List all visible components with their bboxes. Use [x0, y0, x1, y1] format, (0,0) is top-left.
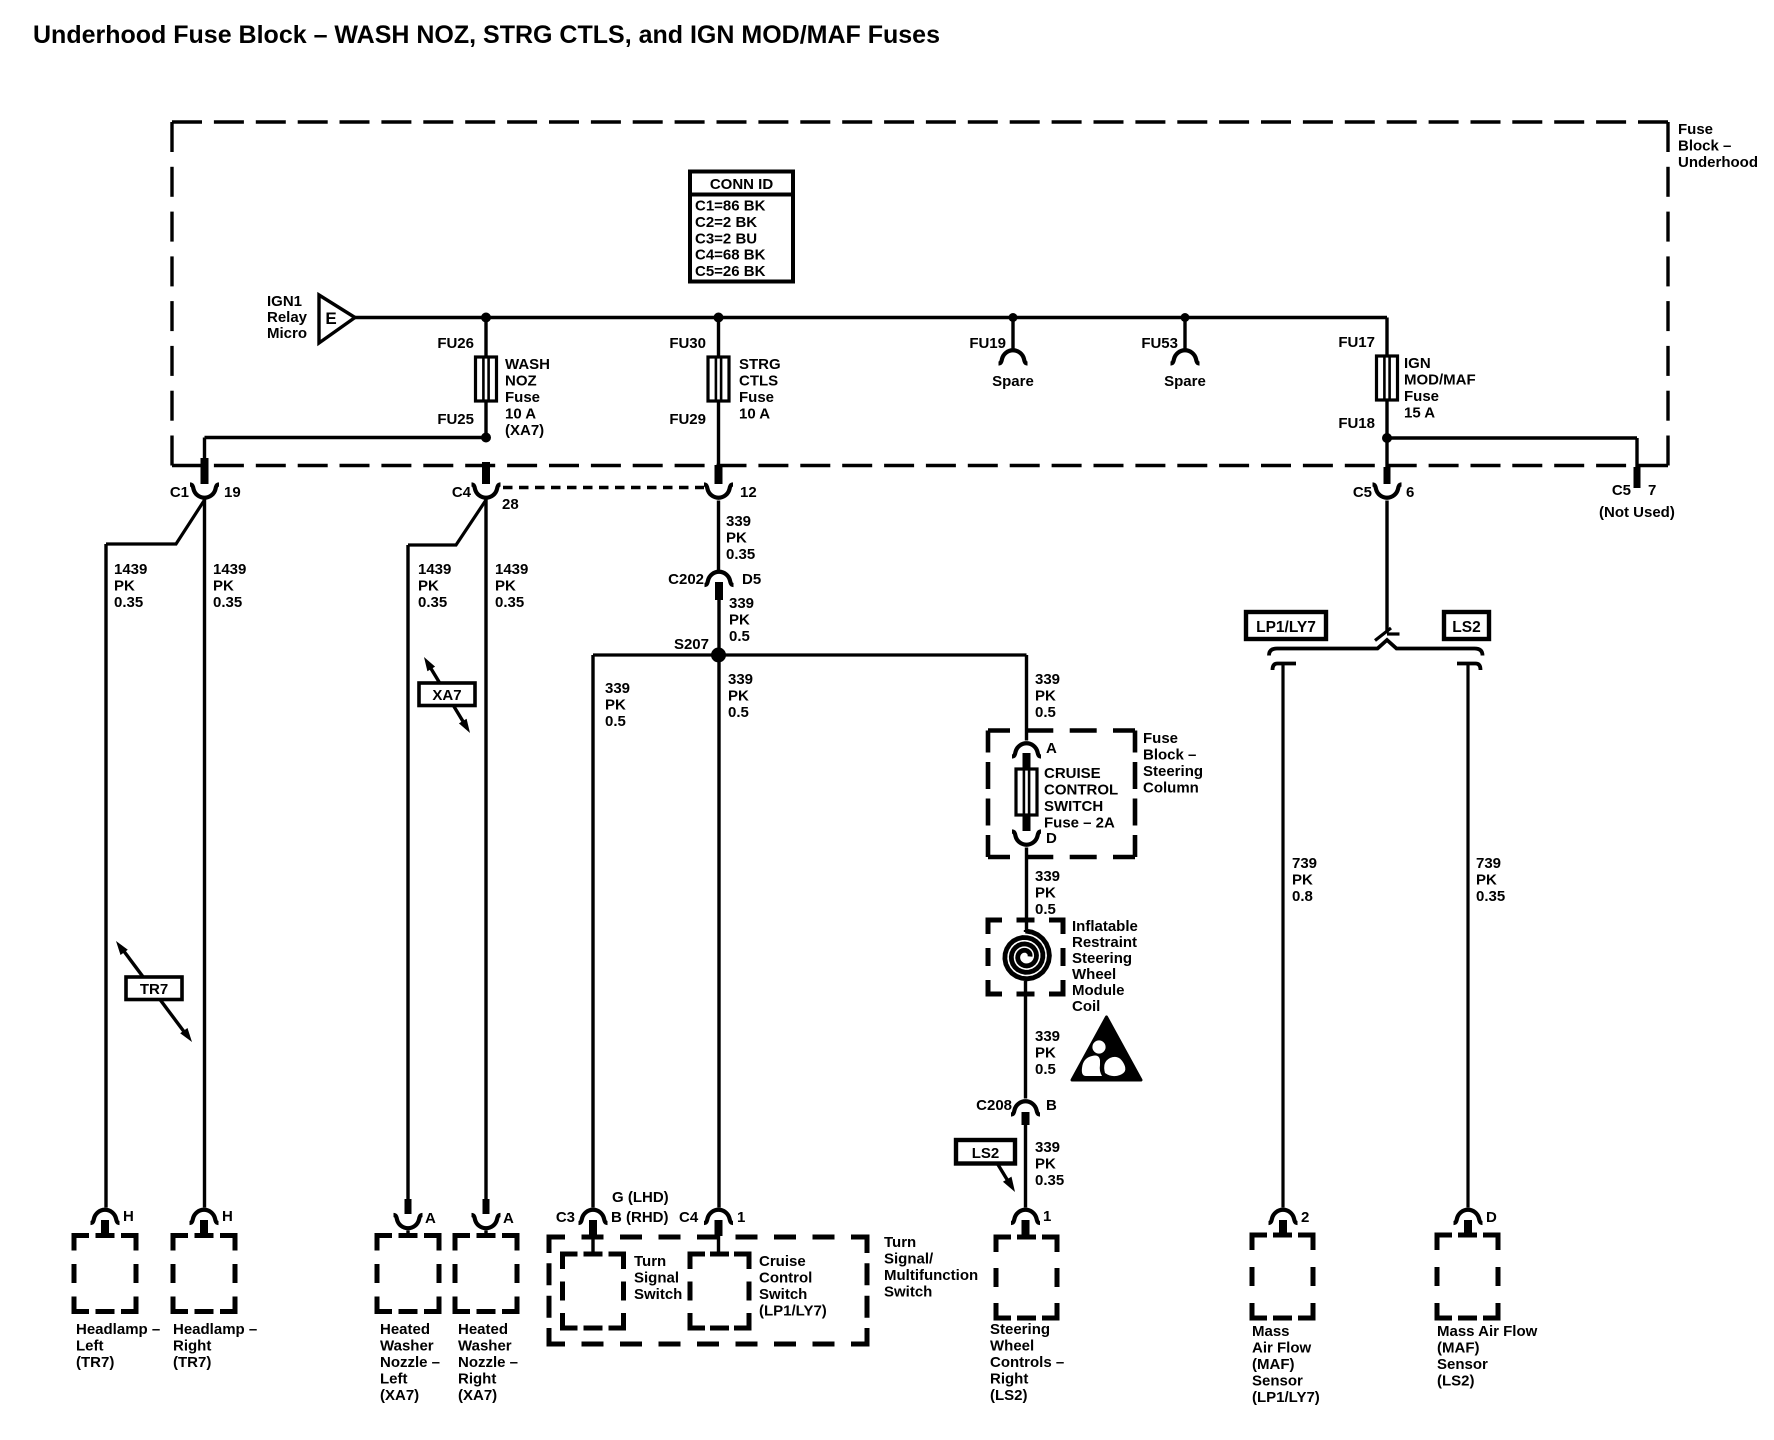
svg-text:(XA7): (XA7) — [380, 1387, 419, 1404]
svg-text:Cruise: Cruise — [759, 1253, 806, 1270]
svg-text:Washer: Washer — [380, 1338, 434, 1355]
svg-text:C2=2 BK: C2=2 BK — [695, 214, 757, 231]
svg-text:PK: PK — [605, 697, 626, 714]
svg-text:FU18: FU18 — [1338, 415, 1375, 432]
svg-text:Nozzle –: Nozzle – — [458, 1354, 518, 1371]
svg-text:1: 1 — [737, 1209, 745, 1226]
svg-text:Heated: Heated — [380, 1321, 430, 1338]
svg-text:339: 339 — [1035, 1139, 1060, 1156]
svg-text:XA7: XA7 — [432, 687, 461, 704]
svg-text:A: A — [503, 1210, 514, 1227]
svg-text:(LS2): (LS2) — [990, 1387, 1028, 1404]
svg-text:PK: PK — [418, 578, 439, 595]
svg-text:Wheel: Wheel — [990, 1338, 1034, 1355]
svg-text:H: H — [222, 1208, 233, 1225]
svg-text:TR7: TR7 — [140, 981, 168, 998]
svg-text:(LP1/LY7): (LP1/LY7) — [759, 1303, 827, 1320]
svg-text:Underhood Fuse Block – WASH NO: Underhood Fuse Block – WASH NOZ, STRG CT… — [33, 21, 940, 49]
svg-text:Air Flow: Air Flow — [1252, 1340, 1311, 1357]
svg-text:Mass Air Flow: Mass Air Flow — [1437, 1323, 1538, 1340]
svg-text:C5=26 BK: C5=26 BK — [695, 263, 766, 280]
svg-text:739: 739 — [1292, 855, 1317, 872]
svg-text:(XA7): (XA7) — [505, 422, 544, 439]
svg-text:Right: Right — [458, 1371, 496, 1388]
svg-text:Sensor: Sensor — [1252, 1373, 1303, 1390]
svg-text:Steering: Steering — [990, 1321, 1050, 1338]
svg-text:Underhood: Underhood — [1678, 154, 1758, 171]
svg-text:(TR7): (TR7) — [76, 1354, 114, 1371]
svg-text:0.5: 0.5 — [1035, 901, 1056, 918]
svg-text:339: 339 — [605, 680, 630, 697]
svg-text:Switch: Switch — [884, 1284, 932, 1301]
svg-text:A: A — [425, 1210, 436, 1227]
svg-text:Spare: Spare — [1164, 373, 1206, 390]
svg-text:C1: C1 — [170, 484, 189, 501]
svg-text:Multifunction: Multifunction — [884, 1267, 978, 1284]
svg-text:6: 6 — [1406, 484, 1414, 501]
svg-text:1439: 1439 — [495, 561, 528, 578]
svg-text:Module: Module — [1072, 982, 1125, 999]
svg-text:(MAF): (MAF) — [1437, 1340, 1479, 1357]
svg-text:Fuse: Fuse — [739, 389, 774, 406]
svg-text:Fuse: Fuse — [1404, 388, 1439, 405]
svg-text:FU17: FU17 — [1338, 334, 1375, 351]
svg-text:Left: Left — [76, 1338, 104, 1355]
svg-text:Column: Column — [1143, 780, 1199, 797]
svg-text:H: H — [123, 1208, 134, 1225]
svg-text:C1=86 BK: C1=86 BK — [695, 198, 766, 215]
svg-text:19: 19 — [224, 484, 241, 501]
svg-text:0.5: 0.5 — [1035, 704, 1056, 721]
svg-text:1: 1 — [1043, 1208, 1051, 1225]
svg-text:Inflatable: Inflatable — [1072, 918, 1138, 935]
svg-text:Mass: Mass — [1252, 1323, 1290, 1340]
svg-text:LS2: LS2 — [1452, 619, 1480, 636]
svg-text:Turn: Turn — [634, 1253, 666, 1270]
svg-text:(LS2): (LS2) — [1437, 1373, 1475, 1390]
svg-text:SWITCH: SWITCH — [1044, 798, 1103, 815]
svg-text:Headlamp –: Headlamp – — [76, 1321, 160, 1338]
svg-text:Right: Right — [173, 1338, 211, 1355]
svg-text:0.5: 0.5 — [729, 628, 750, 645]
svg-text:(MAF): (MAF) — [1252, 1356, 1294, 1373]
svg-text:0.5: 0.5 — [728, 704, 749, 721]
svg-text:C3=2 BU: C3=2 BU — [695, 230, 757, 247]
svg-text:339: 339 — [1035, 1028, 1060, 1045]
svg-text:1439: 1439 — [213, 561, 246, 578]
svg-text:CONTROL: CONTROL — [1044, 782, 1118, 799]
svg-text:739: 739 — [1476, 855, 1501, 872]
svg-text:A: A — [1046, 740, 1057, 757]
svg-text:Right: Right — [990, 1371, 1028, 1388]
svg-text:10 A: 10 A — [505, 406, 536, 423]
svg-text:D5: D5 — [742, 571, 761, 588]
svg-text:PK: PK — [1035, 1045, 1056, 1062]
svg-text:(Not Used): (Not Used) — [1599, 504, 1675, 521]
svg-text:PK: PK — [213, 578, 234, 595]
svg-text:28: 28 — [502, 496, 519, 513]
svg-text:Fuse: Fuse — [1678, 121, 1713, 138]
svg-text:CTLS: CTLS — [739, 373, 778, 390]
svg-text:PK: PK — [1035, 1156, 1056, 1173]
svg-text:FU26: FU26 — [437, 335, 474, 352]
svg-text:PK: PK — [726, 530, 747, 547]
svg-text:Headlamp –: Headlamp – — [173, 1321, 257, 1338]
svg-text:0.5: 0.5 — [1035, 1061, 1056, 1078]
svg-text:Steering: Steering — [1143, 763, 1203, 780]
svg-text:S207: S207 — [674, 636, 709, 653]
svg-text:Left: Left — [380, 1371, 408, 1388]
svg-text:WASH: WASH — [505, 356, 550, 373]
svg-text:Micro: Micro — [267, 325, 307, 342]
svg-text:FU25: FU25 — [437, 411, 474, 428]
svg-text:Signal: Signal — [634, 1270, 679, 1287]
svg-text:LS2: LS2 — [972, 1145, 1000, 1162]
svg-text:Controls –: Controls – — [990, 1354, 1064, 1371]
svg-text:Signal/: Signal/ — [884, 1251, 934, 1268]
svg-text:FU53: FU53 — [1141, 335, 1178, 352]
svg-text:FU30: FU30 — [669, 335, 706, 352]
svg-text:Spare: Spare — [992, 373, 1034, 390]
svg-text:PK: PK — [1035, 885, 1056, 902]
svg-text:FU29: FU29 — [669, 411, 706, 428]
svg-text:Turn: Turn — [884, 1234, 916, 1251]
svg-text:C4=68 BK: C4=68 BK — [695, 247, 766, 264]
svg-text:C202: C202 — [668, 571, 704, 588]
svg-text:12: 12 — [740, 484, 757, 501]
svg-text:339: 339 — [1035, 868, 1060, 885]
svg-text:D: D — [1486, 1209, 1497, 1226]
svg-text:Sensor: Sensor — [1437, 1356, 1488, 1373]
svg-text:NOZ: NOZ — [505, 373, 537, 390]
svg-text:0.35: 0.35 — [726, 546, 755, 563]
svg-text:PK: PK — [728, 688, 749, 705]
svg-text:1439: 1439 — [114, 561, 147, 578]
svg-text:(XA7): (XA7) — [458, 1387, 497, 1404]
svg-text:D: D — [1046, 830, 1057, 847]
svg-text:(TR7): (TR7) — [173, 1354, 211, 1371]
svg-text:Switch: Switch — [634, 1286, 682, 1303]
svg-text:2: 2 — [1301, 1209, 1309, 1226]
svg-text:Block –: Block – — [1143, 747, 1196, 764]
svg-text:G (LHD): G (LHD) — [612, 1189, 669, 1206]
svg-text:0.8: 0.8 — [1292, 888, 1313, 905]
svg-text:CONN ID: CONN ID — [710, 176, 774, 193]
svg-text:0.35: 0.35 — [114, 594, 143, 611]
svg-text:Relay: Relay — [267, 309, 308, 326]
svg-text:0.35: 0.35 — [1035, 1172, 1064, 1189]
svg-text:Fuse: Fuse — [1143, 730, 1178, 747]
svg-text:C208: C208 — [976, 1097, 1012, 1114]
svg-text:Heated: Heated — [458, 1321, 508, 1338]
svg-text:Block –: Block – — [1678, 138, 1731, 155]
svg-text:Switch: Switch — [759, 1286, 807, 1303]
svg-text:B (RHD): B (RHD) — [611, 1209, 669, 1226]
svg-text:C5: C5 — [1353, 484, 1372, 501]
svg-text:(LP1/LY7): (LP1/LY7) — [1252, 1389, 1320, 1406]
svg-text:Control: Control — [759, 1270, 812, 1287]
svg-text:PK: PK — [1476, 872, 1497, 889]
svg-text:PK: PK — [729, 612, 750, 629]
svg-text:FU19: FU19 — [969, 335, 1006, 352]
svg-text:C5: C5 — [1612, 482, 1631, 499]
svg-text:10 A: 10 A — [739, 406, 770, 423]
svg-text:C4: C4 — [679, 1209, 699, 1226]
svg-text:0.35: 0.35 — [1476, 888, 1505, 905]
svg-text:Fuse: Fuse — [505, 389, 540, 406]
svg-text:0.35: 0.35 — [213, 594, 242, 611]
svg-text:0.5: 0.5 — [605, 713, 626, 730]
svg-text:339: 339 — [729, 595, 754, 612]
svg-text:0.35: 0.35 — [418, 594, 447, 611]
svg-text:Coil: Coil — [1072, 998, 1100, 1015]
svg-text:PK: PK — [1292, 872, 1313, 889]
svg-text:1439: 1439 — [418, 561, 451, 578]
svg-text:CRUISE: CRUISE — [1044, 765, 1101, 782]
svg-text:C3: C3 — [556, 1209, 575, 1226]
svg-text:IGN1: IGN1 — [267, 293, 302, 310]
svg-text:E: E — [325, 309, 336, 328]
svg-text:0.35: 0.35 — [495, 594, 524, 611]
svg-text:339: 339 — [728, 671, 753, 688]
svg-text:MOD/MAF: MOD/MAF — [1404, 372, 1476, 389]
svg-text:STRG: STRG — [739, 356, 781, 373]
svg-text:PK: PK — [1035, 688, 1056, 705]
svg-text:PK: PK — [114, 578, 135, 595]
svg-text:IGN: IGN — [1404, 355, 1431, 372]
svg-text:Steering: Steering — [1072, 950, 1132, 967]
svg-text:PK: PK — [495, 578, 516, 595]
svg-text:15 A: 15 A — [1404, 405, 1435, 422]
svg-text:339: 339 — [726, 513, 751, 530]
svg-text:C4: C4 — [452, 484, 472, 501]
svg-text:339: 339 — [1035, 671, 1060, 688]
svg-text:7: 7 — [1648, 482, 1656, 499]
svg-text:Fuse – 2A: Fuse – 2A — [1044, 815, 1115, 832]
svg-text:Nozzle –: Nozzle – — [380, 1354, 440, 1371]
svg-text:Washer: Washer — [458, 1338, 512, 1355]
svg-text:B: B — [1046, 1097, 1057, 1114]
svg-text:LP1/LY7: LP1/LY7 — [1256, 619, 1316, 636]
svg-text:Wheel: Wheel — [1072, 966, 1116, 983]
svg-text:Restraint: Restraint — [1072, 934, 1137, 951]
